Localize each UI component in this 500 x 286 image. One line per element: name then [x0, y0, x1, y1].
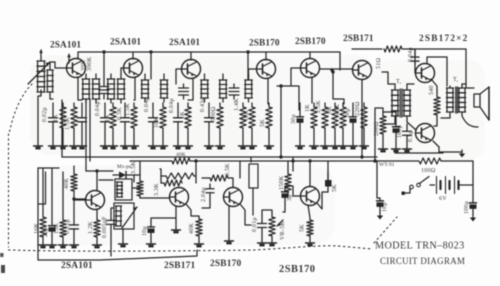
volume control VR-5K — [269, 214, 275, 240]
resistor 100Ω horizontal — [419, 158, 441, 164]
ground under 0.04μ x=105 — [101, 143, 110, 149]
resistor 5K vertical — [266, 103, 272, 143]
diode detector — [113, 172, 140, 179]
svg-text:1K: 1K — [53, 114, 59, 122]
ground lower-left x=52 — [48, 242, 57, 248]
svg-text:1.4K: 1.4K — [234, 98, 240, 111]
wire osc coil bottom lead — [122, 229, 124, 241]
title MODEL TRN-8023 — [375, 241, 465, 252]
capacitor 0.43μ — [205, 103, 214, 143]
svg-text:Mx-ps: Mx-ps — [117, 164, 131, 170]
wire interstage can lead — [252, 188, 254, 215]
resistor 150K vertical — [285, 171, 291, 196]
ground under 1K x=314 — [310, 143, 319, 149]
wire Q11 emitter down — [228, 206, 230, 238]
wire drop to Q1 collector — [77, 52, 79, 59]
svg-text:0.04μ: 0.04μ — [408, 47, 414, 62]
wire 0.005uF bottom to boundary — [110, 234, 112, 256]
wire 0.005uF top — [111, 208, 113, 214]
label 0.04μ — [144, 97, 150, 112]
wire antenna coil bottom — [38, 90, 41, 143]
IF transformer T1 secondary winding — [92, 74, 100, 103]
dashed antenna boundary diagonal — [9, 84, 32, 134]
transistor Q1 2SA101 converter — [67, 59, 86, 78]
wire AGC branch — [333, 72, 344, 104]
label 0.04μ at Q7 — [408, 47, 414, 62]
label 16K — [34, 223, 40, 234]
svg-text:1K: 1K — [180, 111, 186, 119]
label 2SA101 stage3 — [169, 38, 200, 48]
wire output stage ground lead — [439, 147, 462, 152]
label 40K oscillator — [64, 178, 70, 189]
wire lower-left top link — [38, 167, 59, 169]
svg-text:0.01μ: 0.01μ — [65, 219, 71, 234]
wire Q6 emitter to bus — [361, 80, 363, 157]
svg-text:16K: 16K — [34, 223, 40, 234]
svg-text:10μ: 10μ — [142, 226, 148, 236]
scan mark left edge upper — [0, 253, 4, 257]
svg-text:2SB170: 2SB170 — [210, 259, 242, 269]
wire coupling coil to Q1 base — [50, 62, 67, 99]
resistor 10K vertical — [160, 103, 166, 143]
label 6V battery — [439, 196, 447, 202]
tuning capacitor IFT3 — [179, 84, 189, 99]
svg-text:3.3K: 3.3K — [154, 183, 160, 196]
ground lower-left x=43 — [39, 242, 48, 248]
label 40K bus — [176, 152, 186, 158]
wire 3u top to Q12 base — [285, 186, 300, 196]
wire secondary bus right — [190, 160, 377, 162]
label 1K — [305, 104, 311, 112]
IF transformer T3 secondary winding — [160, 74, 168, 102]
svg-text:100Ω: 100Ω — [421, 168, 436, 174]
ground under 0.04μ x=153 — [149, 143, 158, 149]
junction dot bus x310 — [308, 159, 311, 162]
resistor 40K vertical audio — [196, 217, 202, 241]
svg-text:2SB170: 2SB170 — [279, 264, 316, 275]
resistor 5K vertical — [307, 218, 313, 240]
wire long vertical detector feed — [89, 99, 91, 161]
ground under 45K x=343 — [339, 143, 348, 149]
svg-text:0.01μ: 0.01μ — [252, 217, 258, 232]
ground Q10 emitter — [172, 227, 181, 233]
ground output stage — [459, 150, 465, 158]
wire Q2 base lead — [121, 68, 124, 74]
volume control wiper arrow — [277, 220, 283, 226]
wire drop to Q4 collector — [265, 52, 267, 60]
label 3μ — [287, 194, 293, 201]
ground under 0.43μ x=209 — [205, 143, 214, 149]
output transformer core lines — [456, 87, 458, 113]
junction dot AGC — [331, 70, 334, 73]
wire Q7 base drop — [414, 49, 416, 64]
wire long vertical from IFT1 — [85, 99, 87, 171]
svg-text:0.5μ: 0.5μ — [408, 130, 414, 142]
capacitor 0.04μ at Q7 base — [411, 49, 419, 73]
resistor 1K vertical — [60, 103, 66, 143]
label 500Ω — [211, 106, 217, 121]
svg-text:1K: 1K — [105, 114, 111, 122]
wire Q9 emitter up — [96, 171, 98, 191]
ground under 1.5K x=134 — [130, 143, 139, 149]
svg-text:40K: 40K — [176, 152, 186, 158]
electrolytic capacitor 100μ power — [470, 200, 477, 214]
wire T primary bottom — [384, 116, 395, 124]
label 2SB171 stage6 — [343, 34, 374, 44]
capacitor 0.5K — [121, 103, 130, 143]
svg-text:MODEL TRN–8023: MODEL TRN–8023 — [375, 241, 465, 252]
wire link Q9 top to osc can — [99, 179, 113, 181]
svg-text:0.43μ: 0.43μ — [200, 97, 206, 112]
output transformer primary winding — [446, 86, 453, 112]
ground under 1.2K — [93, 242, 102, 248]
wire output primary bottom to Q8 — [433, 112, 450, 147]
tuning arrow across antenna coil — [28, 62, 50, 84]
label 390K at Q1 — [87, 56, 93, 71]
oscillator coil upper winding — [117, 182, 123, 197]
oscillator transformer can upper — [115, 179, 132, 200]
svg-text:2.04μ: 2.04μ — [201, 187, 207, 202]
wire Q3 base lead — [176, 69, 182, 84]
junction dot bus x196 — [194, 159, 197, 162]
IF transformer T4 primary winding — [201, 74, 209, 102]
label 3.5K coupling — [225, 163, 231, 176]
resistor 10K detector — [161, 173, 196, 179]
svg-text:0.04μ: 0.04μ — [95, 101, 101, 116]
ground under 0.5μ — [403, 146, 412, 152]
ground 5K emitter — [306, 240, 315, 246]
transistor Q8 2SB172 output lower — [416, 124, 435, 143]
wire Q9 collector down — [96, 209, 98, 218]
wire Q7 emitter up — [427, 57, 447, 86]
svg-text:2SA101: 2SA101 — [110, 38, 141, 48]
wire Q9 base — [74, 200, 86, 216]
label 30μ — [291, 114, 297, 124]
label 0.01μ osc — [65, 219, 71, 234]
label 10μ power — [382, 202, 388, 212]
wire T primary top — [382, 72, 395, 84]
label 2SB170 stage4 — [249, 39, 280, 49]
svg-text:390K: 390K — [87, 56, 93, 71]
label 5K — [260, 119, 266, 127]
label WT-91 — [379, 162, 395, 168]
svg-text:30μ: 30μ — [291, 114, 297, 124]
IF transformer T4 secondary winding — [219, 74, 227, 102]
wire transformer box bottom — [395, 152, 443, 154]
wire Q5 emitter down — [311, 77, 313, 103]
switch SW power — [402, 177, 430, 195]
ground VR-5K — [268, 240, 277, 246]
wire drop to IFT1 cap — [103, 52, 105, 81]
ground 10μ power cap — [377, 212, 383, 220]
svg-text:10μ: 10μ — [382, 202, 388, 212]
tuning capacitor IFT1 — [99, 81, 109, 99]
junction dot detector — [279, 84, 282, 87]
wire drop to IFT2 — [150, 52, 152, 79]
svg-text:0.005μF: 0.005μF — [102, 216, 108, 238]
capacitor 2.04μ — [206, 184, 214, 200]
ground under 8K x=335 — [331, 143, 340, 149]
svg-text:T,: T, — [396, 79, 402, 85]
IF transformer T3 primary winding — [141, 74, 149, 102]
wire output transformer secondary top — [462, 83, 466, 85]
transistor Q10 2SB171 audio pre — [170, 188, 189, 207]
svg-text:T,: T, — [453, 77, 459, 83]
transistor Q11 2SB170 audio — [224, 188, 243, 207]
svg-text:10K: 10K — [244, 110, 250, 121]
wire Q12 emitter down — [308, 205, 310, 218]
label 1.2K — [88, 221, 94, 234]
label 39K at Q1 — [81, 60, 87, 71]
wire secondary bus left — [130, 160, 172, 162]
resistor 51Ω horizontal — [384, 46, 402, 52]
ground 10μ audio — [147, 241, 156, 247]
label T driver transformer — [396, 79, 402, 85]
label 10K — [244, 110, 250, 121]
speaker — [474, 87, 489, 120]
resistor 500Ω vertical — [217, 103, 223, 143]
svg-text:2SB170: 2SB170 — [295, 37, 326, 47]
wire Q7 collector to 540 — [431, 79, 437, 92]
label 2SB170 audio2 — [210, 259, 242, 269]
label 150K — [279, 175, 285, 190]
junction dot top bus x151 — [149, 50, 152, 53]
ground Q11 emitter — [225, 238, 234, 244]
label 2SB171 audio — [164, 261, 196, 271]
wire coupling res to Q11 base — [228, 178, 233, 187]
svg-text:15K: 15K — [54, 223, 60, 234]
svg-text:51Ω: 51Ω — [376, 58, 382, 69]
wire bus drop 15K — [62, 172, 64, 217]
svg-text:5K: 5K — [300, 224, 306, 232]
wire Q5 to Q6 base — [320, 68, 352, 70]
svg-text:2SA101: 2SA101 — [61, 261, 93, 271]
transistor Q12 2SB170 driver — [301, 187, 320, 206]
resistor 3.5K coupling — [202, 175, 228, 181]
IF transformer T2 secondary winding — [117, 74, 125, 103]
wire Q12 collector — [317, 192, 328, 209]
ground under 1K x=63 — [59, 143, 68, 149]
ground under 500Ω x=220 — [216, 143, 225, 149]
ground under 1K x=188 — [184, 143, 193, 149]
label 2SB172x2 output — [419, 34, 469, 44]
resistor 40K oscillator base — [71, 166, 77, 199]
antenna coil L1 primary winding — [37, 54, 45, 92]
wire x196 link — [195, 176, 197, 183]
svg-text:0.04μ: 0.04μ — [169, 98, 175, 113]
wire x161 link — [160, 169, 161, 183]
ground under 1K x=113 — [109, 143, 118, 149]
label 3.3K — [154, 183, 160, 196]
wire power rail left — [375, 160, 418, 162]
label 15K — [54, 223, 60, 234]
wire 2.04u to Q10 collector net — [202, 200, 210, 208]
wire Q2 emitter down — [134, 77, 135, 100]
wire lower-left boundary — [38, 168, 197, 260]
resistor 1.5K vertical — [71, 103, 77, 143]
wire VR top — [262, 210, 272, 215]
IF transformer T1 primary winding — [82, 74, 90, 103]
label 2SB170 driver — [279, 264, 316, 275]
ground under 200Ω — [379, 146, 388, 152]
ground under 0.02μ x=53 — [49, 143, 58, 149]
svg-text:2.5K: 2.5K — [316, 100, 322, 113]
svg-text:30μ: 30μ — [345, 108, 351, 118]
resistor 1K vertical — [110, 103, 116, 143]
svg-text:CIRCUIT DIAGRAM: CIRCUIT DIAGRAM — [380, 256, 465, 266]
label 0.005μF — [102, 216, 108, 238]
capacitor 0.005μF — [107, 214, 116, 234]
driver transformer core lines — [400, 89, 402, 117]
transistor Q7 2SB172 output upper — [416, 64, 435, 83]
label 30μ — [345, 108, 351, 118]
wire Q3 emitter down — [188, 78, 193, 100]
svg-text:40K: 40K — [64, 178, 70, 189]
svg-text:22μ: 22μ — [43, 227, 49, 237]
ground 100μ power cap — [470, 214, 476, 222]
wire speaker bottom loop — [462, 112, 478, 127]
wire lower-left U branch — [39, 172, 46, 204]
wire 3.5K top — [139, 161, 141, 175]
wire 3.5K bottom to Q10 base — [140, 197, 169, 199]
resistor 10K vertical — [249, 103, 255, 143]
wire corner into speaker top — [466, 84, 474, 88]
ground under 10K x=163 — [159, 143, 168, 149]
label 0.5μ — [408, 130, 414, 142]
label 3.5K detector — [131, 161, 137, 174]
wire 10u audio top — [151, 218, 176, 222]
resistor 1K detector — [161, 180, 182, 186]
electrolytic capacitor 22μ — [49, 219, 56, 242]
electrolytic capacitor 30μ — [350, 103, 357, 143]
svg-text:2SB171: 2SB171 — [343, 34, 374, 44]
label 0.02μ — [42, 107, 48, 122]
wire osc can tie — [132, 175, 140, 188]
wire vertical x240 to Q11 — [239, 161, 241, 178]
junction dot Q6 base net — [330, 68, 333, 71]
label 2SA101 oscillator — [61, 261, 93, 271]
wire T secondary bottom to Q8 base — [407, 116, 416, 130]
ground under 30μ x=353 — [349, 143, 358, 149]
svg-text:5K: 5K — [260, 119, 266, 127]
label 10K — [154, 117, 160, 128]
wire 40K to Q9 base — [74, 198, 86, 200]
resistor 8K vertical — [332, 103, 338, 143]
ground 40K audio — [195, 241, 204, 247]
wire power rail right vertical — [472, 161, 474, 200]
label 2.04μ — [201, 187, 207, 202]
label 5K emitter — [300, 224, 306, 232]
label 10μ audio — [142, 226, 148, 236]
resistor 1.2K vertical — [94, 218, 100, 242]
label VR-5K — [280, 221, 286, 240]
resistor 1K vertical — [311, 103, 317, 143]
svg-text:2SA101: 2SA101 — [50, 41, 81, 51]
label 1.5K — [65, 117, 71, 130]
wire Q11 collector — [240, 204, 251, 225]
driver transformer T secondary winding — [403, 84, 410, 116]
ground under 2.5K x=325 — [321, 143, 330, 149]
wire bus drop 22u — [51, 168, 53, 219]
resistor 200Ω vertical — [380, 112, 386, 146]
label 1.5K — [125, 103, 131, 116]
svg-text:1K: 1K — [305, 104, 311, 112]
wire Q6 base from dot — [331, 69, 333, 71]
wire vertical x196 — [195, 161, 197, 176]
label 100Ω — [421, 168, 436, 174]
svg-text:100μ: 100μ — [464, 200, 470, 214]
interstage can — [249, 164, 258, 188]
wire audio line y171 — [86, 170, 113, 172]
label 1.4K — [234, 98, 240, 111]
resistor 540 vertical — [434, 92, 440, 120]
svg-text:45K: 45K — [335, 104, 341, 115]
svg-text:VR-5K: VR-5K — [280, 221, 286, 240]
wire coupling top to base — [50, 62, 55, 70]
wire 150K top — [287, 161, 289, 171]
ground lower-left x=74 — [70, 242, 79, 248]
junction dot bus x281 — [279, 155, 282, 158]
ground under 100μ — [392, 146, 401, 152]
output transformer secondary winding — [458, 84, 465, 112]
capacitor capacitor — [78, 103, 87, 143]
label 0.43μ — [200, 97, 206, 112]
label 0.04μ — [169, 98, 175, 113]
label 51Ω — [376, 58, 382, 69]
ground antenna coil — [34, 143, 43, 149]
wire power rail right — [441, 160, 473, 162]
wire drop to IFT3 — [247, 52, 249, 79]
resistor 1.5K vertical — [131, 103, 137, 143]
wire top supply bus — [78, 51, 340, 53]
svg-text:150K: 150K — [279, 175, 285, 190]
svg-text:0.02μ: 0.02μ — [42, 107, 48, 122]
resistor 1.4K vertical — [240, 103, 246, 143]
svg-text:2SB171: 2SB171 — [164, 261, 196, 271]
resistor 15K vertical — [60, 217, 66, 242]
transistor Q6 2SB171 driver — [353, 61, 372, 80]
capacitor 0.01μ osc — [70, 216, 79, 242]
wire Q5 base lead — [291, 68, 300, 70]
wire right edge down to output transformer — [465, 49, 467, 84]
label Mx-ps diode — [117, 164, 131, 170]
label 22μ — [43, 227, 49, 237]
wire drop to Q2 collector — [132, 52, 134, 59]
svg-text:0.04μ: 0.04μ — [144, 97, 150, 112]
ground under 220Ω x=364 — [360, 143, 369, 149]
label 40K audio — [189, 223, 195, 234]
label 100μ power — [464, 200, 470, 214]
junction dot bus x362 — [360, 155, 363, 158]
wire Q10 emitter to ground — [175, 206, 177, 227]
wire detector net — [277, 70, 299, 157]
junction dot bus x293 — [291, 159, 294, 162]
tuning capacitor IFT4 — [229, 84, 239, 99]
svg-text:WT-91: WT-91 — [379, 162, 395, 168]
ground under 1.5K x=74 — [70, 143, 79, 149]
label 2SA101 stage2 — [110, 38, 141, 48]
transistor Q2 2SA101 1st IF — [124, 59, 143, 78]
label 220Ω — [355, 101, 361, 116]
oscillator coil can lower — [114, 203, 134, 229]
electrolytic capacitor 30μ — [297, 103, 304, 143]
label 45K — [335, 104, 341, 115]
wire drop to Q5 collector — [309, 52, 311, 58]
label 1K — [53, 114, 59, 122]
label 540 — [429, 85, 435, 95]
svg-text:2SB170: 2SB170 — [249, 39, 280, 49]
capacitor 0.04μ — [174, 103, 183, 143]
